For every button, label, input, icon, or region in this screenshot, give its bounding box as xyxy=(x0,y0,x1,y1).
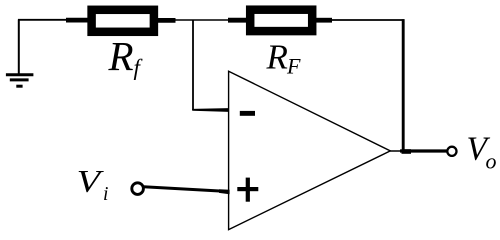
wire to op-amp minus input xyxy=(192,108,228,112)
minus sign at inverting input xyxy=(240,111,255,116)
wire output to terminal xyxy=(400,149,447,152)
wire ground to Rf xyxy=(18,19,67,21)
resistor RF xyxy=(228,10,332,31)
label Rf value xyxy=(108,33,144,80)
label Vi xyxy=(77,164,109,205)
resistor Rf xyxy=(66,10,176,32)
svg-text:R: R xyxy=(266,38,288,77)
node output junction xyxy=(402,149,412,154)
wire Vi terminal to plus input xyxy=(144,185,223,192)
svg-text:F: F xyxy=(286,54,301,79)
svg-text:o: o xyxy=(486,149,497,174)
svg-text:R: R xyxy=(108,33,134,79)
wire feedback down to output node xyxy=(402,19,405,152)
wire RF to right corner xyxy=(331,19,404,21)
plus sign at non-inverting input xyxy=(237,178,258,202)
op-amp U1 xyxy=(229,71,391,229)
ground xyxy=(6,20,34,87)
label Vo xyxy=(467,130,497,173)
wire Rf to RF xyxy=(174,19,229,21)
input terminal Vi xyxy=(132,183,144,195)
wire junction down to inverting input xyxy=(192,20,194,111)
label RF value xyxy=(266,38,302,79)
wire op-amp output xyxy=(390,150,402,152)
junction blob at plus input xyxy=(219,189,230,194)
output terminal Vo xyxy=(447,147,456,156)
svg-text:i: i xyxy=(103,184,108,205)
